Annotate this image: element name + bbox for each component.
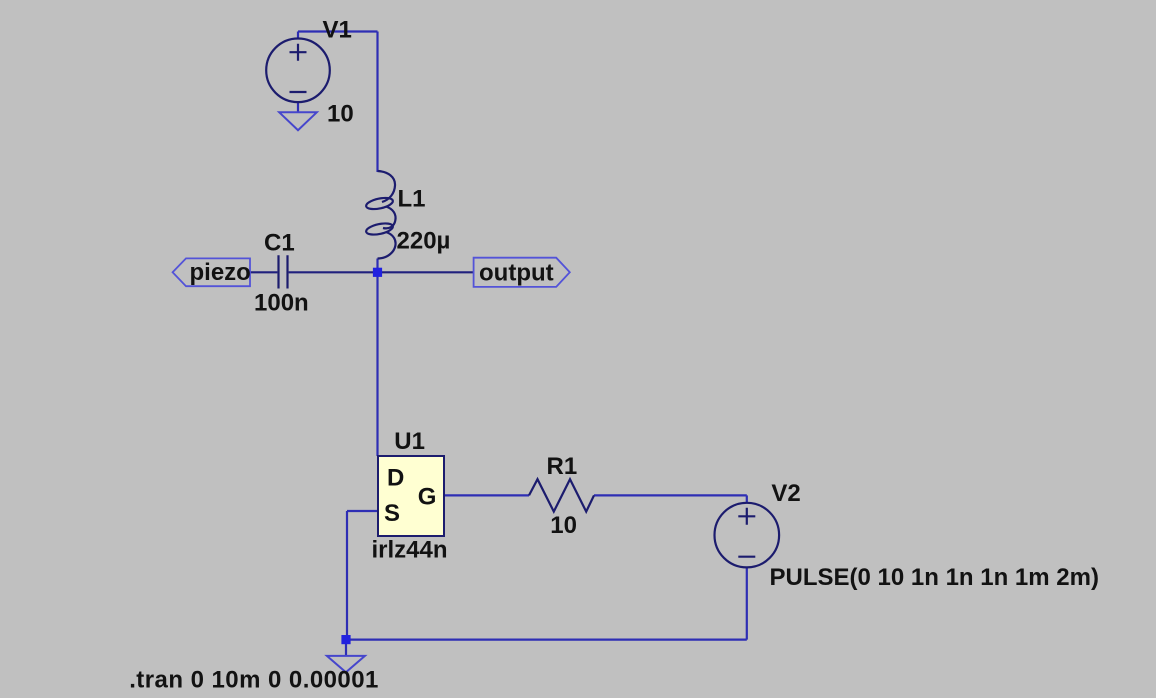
- svg-text:PULSE(0 10 1n 1n 1n 1m 2m): PULSE(0 10 1n 1n 1n 1m 2m): [770, 564, 1099, 591]
- svg-text:U1: U1: [394, 428, 425, 455]
- svg-text:G: G: [418, 483, 437, 510]
- svg-text:10: 10: [550, 512, 577, 539]
- svg-text:L1: L1: [398, 186, 426, 213]
- svg-text:C1: C1: [264, 229, 295, 256]
- svg-text:output: output: [479, 259, 554, 286]
- svg-text:V2: V2: [771, 480, 800, 507]
- svg-text:piezo: piezo: [190, 259, 251, 286]
- svg-text:10: 10: [327, 101, 354, 128]
- svg-text:S: S: [384, 500, 400, 527]
- svg-text:.tran 0 10m 0 0.00001: .tran 0 10m 0 0.00001: [129, 667, 379, 694]
- svg-text:R1: R1: [547, 453, 578, 480]
- svg-text:220µ: 220µ: [397, 228, 451, 255]
- svg-text:D: D: [387, 465, 404, 492]
- svg-text:irlz44n: irlz44n: [372, 537, 448, 564]
- svg-text:100n: 100n: [254, 290, 309, 317]
- svg-text:V1: V1: [323, 17, 352, 44]
